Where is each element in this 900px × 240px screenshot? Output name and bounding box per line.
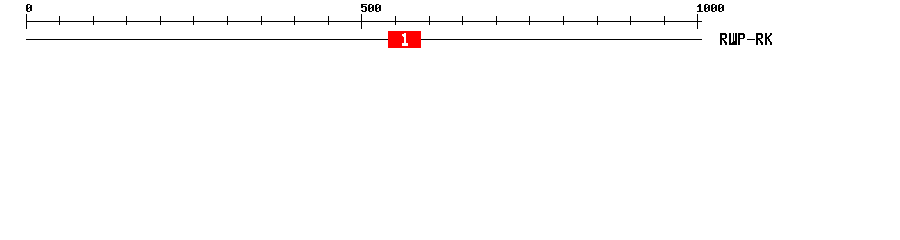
letter P [738, 33, 745, 45]
ruler label 0 [26, 4, 32, 12]
ruler main line [26, 21, 702, 22]
letter K [765, 33, 772, 45]
letter R [756, 33, 763, 45]
domain name label RWP-RK: letter R [720, 33, 727, 45]
letter W [729, 33, 737, 45]
ruler minor ticks [59, 16, 665, 25]
ruler label 500 [361, 4, 381, 12]
hyphen [747, 39, 755, 40]
domain hit number 1 (white) [402, 33, 408, 46]
domain hit box (red) [388, 31, 421, 48]
ruler major tick 0 [26, 14, 27, 29]
ruler major tick 1000 [697, 14, 698, 29]
protein sequence line [26, 39, 702, 40]
ruler major tick 500 [361, 14, 362, 29]
ruler label 1000 [697, 4, 724, 12]
